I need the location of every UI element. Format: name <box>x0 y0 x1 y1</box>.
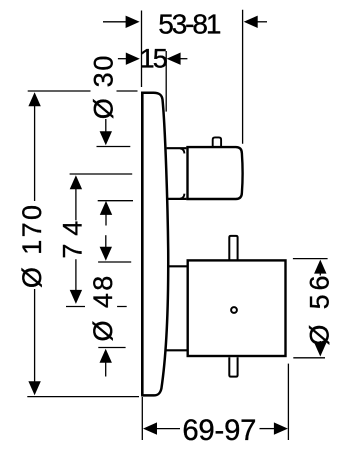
dimension 74 arrow top <box>70 175 82 189</box>
top knob neck fillet bottom <box>180 194 184 199</box>
dimension 74 arrow bottom <box>70 290 82 304</box>
top knob body (volume control) <box>188 147 243 199</box>
svg-text:Ø 48: Ø 48 <box>88 273 118 341</box>
dimension O48 extension line top <box>98 261 131 263</box>
dimension O56 extension line bottom <box>293 357 325 359</box>
dimension O170 extension line top <box>28 90 138 92</box>
dimension O30 extension line top <box>97 146 131 148</box>
dimension O30 line below <box>105 214 107 226</box>
dimension O170 line <box>34 104 36 383</box>
dimension O48 arrow bottom (outside, pointing up) <box>100 349 112 363</box>
dimension 69-97 line left <box>156 428 180 430</box>
svg-text:15: 15 <box>140 43 167 73</box>
top knob neck fillet top <box>180 148 184 153</box>
dimension O48 line above <box>105 235 107 247</box>
dimension 53-81 line right <box>257 21 268 23</box>
dimension O30 arrow top (outside, pointing down) <box>100 131 112 145</box>
dimension 53-81 extension line left <box>141 11 143 88</box>
bottom knob lever tab top <box>229 236 237 262</box>
dimension O48 arrow top (outside, pointing down) <box>100 247 112 261</box>
dimension O170 arrow bottom <box>28 381 40 395</box>
dimension 69-97 extension line left <box>141 397 143 440</box>
dimension 53-81 arrow left <box>126 16 140 28</box>
dimension O30 extension line bottom <box>98 200 133 202</box>
dimension O30 line above <box>105 119 107 132</box>
top knob neck top <box>167 147 187 149</box>
dimension 15 extension line right <box>165 51 167 112</box>
dimension O30 arrow bottom (outside, pointing up) <box>100 201 112 215</box>
bottom knob center dot <box>231 307 237 313</box>
dimension 74 extension line top <box>70 173 133 175</box>
dimension 53-81 line left <box>103 21 127 23</box>
dimension 15 arrow left <box>126 53 140 65</box>
bottom knob neck bottom <box>166 349 187 351</box>
dimension O56 stub bottom <box>319 341 321 343</box>
svg-text:Ø 30: Ø 30 <box>89 54 119 119</box>
dimension 53-81 arrow right <box>244 16 258 28</box>
dimension 69-97 arrow right <box>274 422 288 434</box>
dimension 74 line <box>75 187 77 292</box>
svg-text:53-81: 53-81 <box>158 9 221 40</box>
bottom knob neck top <box>168 265 187 267</box>
dimension O48 line below <box>105 362 107 377</box>
bottom knob body (thermostat handle) <box>188 260 286 356</box>
dimension 69-97 arrow left <box>143 422 157 434</box>
dimension 74 extension line bottom <box>66 306 127 308</box>
top knob button bump <box>213 137 221 146</box>
dimension 69-97 line right <box>260 428 276 430</box>
bottom knob lever tab bottom <box>229 357 237 376</box>
svg-text:74: 74 <box>57 213 87 259</box>
dimension 15 line left <box>118 58 127 60</box>
dimension 69-97 extension line right <box>287 364 289 440</box>
dimension 15 arrow right <box>167 53 181 65</box>
dimension O56 extension line top <box>293 258 328 260</box>
dimension O170 arrow top <box>28 92 40 106</box>
svg-text:Ø 56: Ø 56 <box>304 272 334 346</box>
plate outline (top edge, face curve, bottom edge) <box>141 93 168 396</box>
dimension O170 extension line bottom <box>27 396 139 398</box>
dimension O56 arrow top <box>314 260 326 274</box>
dimension 53-81 extension line right <box>242 10 244 144</box>
dimension 15 line right <box>180 58 188 60</box>
dimension O48 extension line bottom <box>98 347 125 349</box>
top knob neck bottom <box>167 198 186 200</box>
svg-text:Ø 170: Ø 170 <box>17 203 47 289</box>
dimension O56 arrow bottom <box>314 343 326 357</box>
dimension O56 stub top <box>319 273 321 276</box>
svg-text:69-97: 69-97 <box>182 414 256 447</box>
plate back (wall line) <box>141 92 144 396</box>
